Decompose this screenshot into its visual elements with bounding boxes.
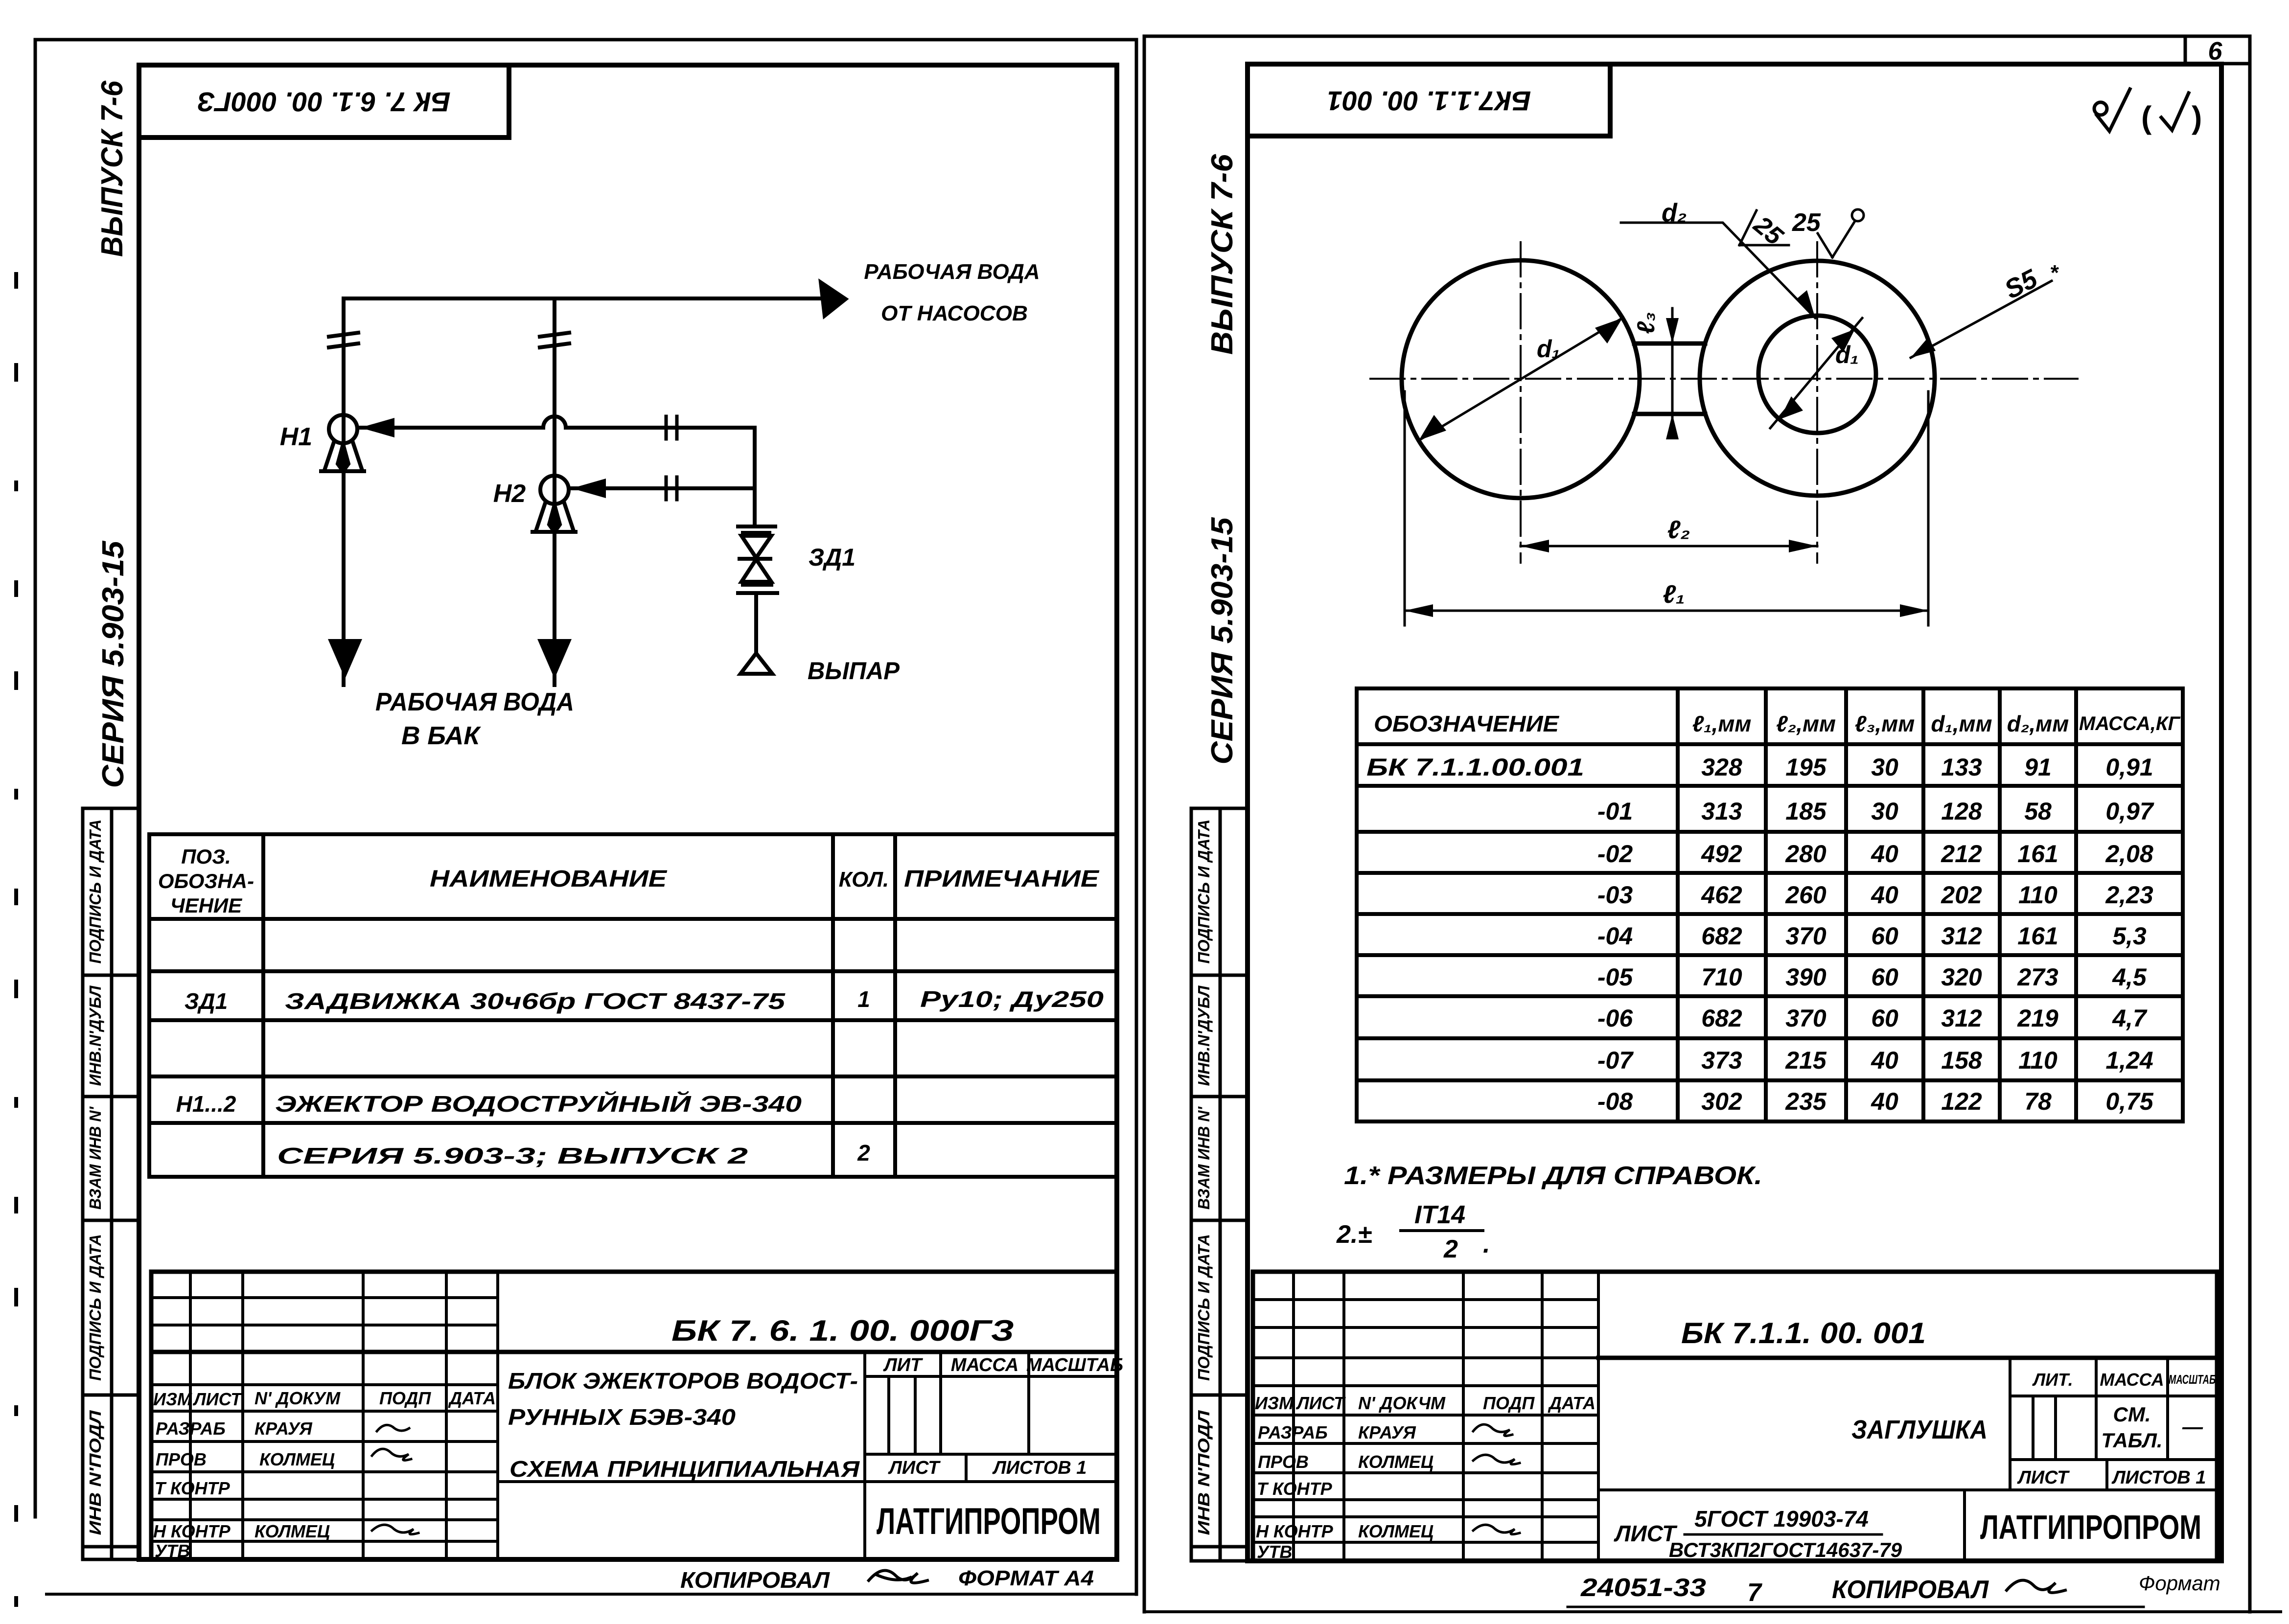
svg-text:ИНВ N'ПОДЛ: ИНВ N'ПОДЛ [1195,1410,1213,1535]
flange pair on branch 1 [329,333,358,347]
svg-text:): ) [2192,100,2202,135]
page2 outer border [1144,36,2281,1612]
svg-text:КОЛМЕЦ: КОЛМЕЦ [254,1521,330,1541]
svg-text:БЛОК ЭЖЕКТОРОВ ВОДОСТ-: БЛОК ЭЖЕКТОРОВ ВОДОСТ- [508,1368,858,1394]
svg-text:158: 158 [1941,1047,1982,1074]
page2 inner frame [1248,64,2221,1561]
svg-text:РУННЫХ БЭВ-340: РУННЫХ БЭВ-340 [508,1404,736,1430]
svg-text:ЛИСТ: ЛИСТ [888,1458,941,1478]
arrowhead into H1 [360,418,394,437]
svg-text:ЛИСТОВ 1: ЛИСТОВ 1 [2111,1467,2206,1488]
svg-text:ФОРМАТ А4: ФОРМАТ А4 [958,1566,1094,1590]
svg-text:(: ( [2141,100,2152,135]
size table header [1374,711,2181,736]
svg-text:Н КОНТР: Н КОНТР [153,1521,231,1541]
svg-text:60: 60 [1871,1005,1898,1032]
centerline vertical right [1816,242,1818,563]
lit/massa/masshtab [883,1355,1123,1478]
svg-text:МАСШТАБ: МАСШТАБ [2169,1372,2216,1387]
dim l3 (neck width) [1632,308,1679,439]
svg-text:ПОДПИСЬ И ДАТА: ПОДПИСЬ И ДАТА [1195,820,1213,964]
size table rows [1366,754,2154,1115]
svg-text:МАСШТАБ: МАСШТАБ [1026,1355,1123,1375]
svg-text:312: 312 [1941,922,1982,950]
svg-text:-02: -02 [1597,840,1633,868]
svg-text:Н1: Н1 [280,423,312,451]
stamp box (rotated doc number) [139,65,509,137]
svg-text:УТВ: УТВ [1257,1542,1292,1562]
svg-text:СЕРИЯ 5.903-3; ВЫПУСК 2: СЕРИЯ 5.903-3; ВЫПУСК 2 [277,1143,748,1168]
stamp box (rotated doc number) [1248,64,1610,136]
svg-text:ℓ₂: ℓ₂ [1667,516,1690,544]
svg-text:2: 2 [857,1140,870,1166]
svg-text:УТВ: УТВ [155,1541,190,1561]
svg-text:ОТ НАСОСОВ: ОТ НАСОСОВ [881,301,1028,325]
svg-text:ПОДПИСЬ И ДАТА: ПОДПИСЬ И ДАТА [86,820,104,964]
svg-text:60: 60 [1871,963,1898,991]
svg-text:ПОЗ.: ПОЗ. [181,845,231,868]
dim d1 right (bore diameter) [1770,318,1862,428]
svg-text:ИНВ.N'ДУБЛ: ИНВ.N'ДУБЛ [1195,985,1213,1086]
svg-text:КОЛМЕЦ: КОЛМЕЦ [1358,1452,1434,1472]
svg-text:ЭЖЕКТОР ВОДОСТРУЙНЫЙ ЭВ-340: ЭЖЕКТОР ВОДОСТРУЙНЫЙ ЭВ-340 [275,1091,802,1117]
svg-text:КОЛМЕЦ: КОЛМЕЦ [1358,1521,1434,1541]
svg-text:ПОДП: ПОДП [379,1388,431,1408]
flange pair on H2 inlet [666,477,677,500]
svg-text:ИЗМ: ИЗМ [1255,1393,1294,1413]
margin stamp boxes column [83,808,139,1559]
svg-text:40: 40 [1871,1047,1898,1074]
margin stamp box labels [86,820,104,1535]
svg-text:БК7.1.1. 00. 001: БК7.1.1. 00. 001 [1327,86,1531,116]
svg-text:370: 370 [1785,922,1827,950]
svg-text:ПРОВ: ПРОВ [1258,1452,1309,1472]
chamfer note 25 (slanted roughness mark) [1739,210,1789,251]
svg-text:0,97: 0,97 [2105,798,2154,825]
leader d2 [1621,199,1815,318]
svg-text:ВСТ3КП2ГОСТ14637-79: ВСТ3КП2ГОСТ14637-79 [1669,1538,1902,1561]
svg-text:МАССА: МАССА [951,1355,1019,1375]
valve ZD1 (gate valve) [738,526,777,593]
node label: РАБОЧАЯ ВОДА В БАК [375,688,574,750]
svg-text:КОЛМЕЦ: КОЛМЕЦ [259,1449,335,1469]
svg-text:91: 91 [2024,754,2052,781]
kopiroval / format [680,1566,1094,1593]
svg-text:25: 25 [1792,208,1821,237]
doc footer numbers [1580,1572,2220,1607]
svg-text:.: . [1483,1230,1490,1258]
svg-text:ЗАДВИЖКА 30ч6бр ГОСТ 8437-75: ЗАДВИЖКА 30ч6бр ГОСТ 8437-75 [285,988,786,1014]
svg-text:4,5: 4,5 [2112,963,2147,991]
svg-text:370: 370 [1785,1005,1827,1032]
svg-text:30: 30 [1871,798,1898,825]
svg-text:ПРОВ: ПРОВ [156,1449,207,1469]
svg-text:КОПИРОВАЛ: КОПИРОВАЛ [680,1567,830,1593]
svg-text:202: 202 [1941,881,1982,909]
svg-text:312: 312 [1941,1005,1982,1032]
svg-text:БК 7.1.1. 00. 001: БК 7.1.1. 00. 001 [1681,1317,1926,1350]
svg-text:462: 462 [1701,881,1742,909]
svg-text:-01: -01 [1597,798,1633,825]
svg-text:40: 40 [1871,881,1898,909]
svg-text:40: 40 [1871,840,1898,868]
svg-text:РАЗРАБ: РАЗРАБ [156,1418,226,1439]
svg-text:302: 302 [1701,1088,1742,1115]
margin stamp boxes column [1191,808,1248,1561]
svg-text:ЗД1: ЗД1 [185,988,228,1014]
left disc outline [1402,260,1640,498]
svg-text:Ру10; Ду250: Ру10; Ду250 [920,986,1104,1012]
svg-text:ЛАТГИПРОПРОМ: ЛАТГИПРОПРОМ [1980,1508,2201,1546]
svg-text:212: 212 [1941,840,1982,868]
svg-text:РАБОЧАЯ ВОДА: РАБОЧАЯ ВОДА [864,260,1040,284]
svg-text:110: 110 [2018,1047,2058,1074]
outlet arrow branch 1 [328,639,362,679]
outlet arrow branch 2 [537,639,572,679]
svg-text:5ГОСТ 19903-74: 5ГОСТ 19903-74 [1694,1506,1869,1532]
svg-text:280: 280 [1785,840,1827,868]
svg-text:d₁,мм: d₁,мм [1931,711,1992,736]
row ZD1 [185,986,1104,1014]
arrowhead into H2 [572,479,606,498]
svg-text:ВЗАМ ИНВ N': ВЗАМ ИНВ N' [1195,1106,1213,1210]
svg-text:320: 320 [1941,963,1982,991]
svg-text:328: 328 [1701,754,1742,781]
svg-text:492: 492 [1701,840,1742,868]
row seriya [277,1140,870,1168]
svg-text:ДАТА: ДАТА [1548,1393,1595,1413]
svg-text:СХЕМА ПРИНЦИПИАЛЬНАЯ: СХЕМА ПРИНЦИПИАЛЬНАЯ [509,1456,860,1482]
svg-text:710: 710 [1701,963,1742,991]
svg-text:4,7: 4,7 [2112,1005,2148,1032]
svg-text:78: 78 [2024,1088,2052,1115]
PAGE 1 (left sheet) [16,40,1136,1605]
wire: branch 1 vertical [342,298,346,685]
svg-text:2,23: 2,23 [2105,881,2153,909]
svg-text:161: 161 [2017,922,2058,950]
page1 inner frame [139,65,1117,1559]
svg-text:-07: -07 [1597,1047,1634,1074]
wire: valve to vent [754,593,758,653]
svg-text:ДАТА: ДАТА [448,1388,496,1408]
svg-text:БК 7. 6. 1. 00. 000ГЗ: БК 7. 6. 1. 00. 000ГЗ [671,1314,1014,1347]
svg-text:215: 215 [1785,1047,1827,1074]
svg-text:30: 30 [1871,754,1898,781]
svg-text:ПРИМЕЧАНИЕ: ПРИМЕЧАНИЕ [904,866,1100,892]
svg-text:ЛАТГИПРОПРОМ: ЛАТГИПРОПРОМ [877,1501,1101,1542]
svg-text:40: 40 [1871,1088,1898,1115]
svg-text:161: 161 [2017,840,2058,868]
wire: H1 inlet from right with crossover bump [360,416,755,428]
svg-text:110: 110 [2018,881,2058,909]
svg-text:682: 682 [1701,922,1742,950]
signatures [372,1425,418,1534]
wire: top supply pipe [344,297,827,300]
svg-text:ℓ₁: ℓ₁ [1663,580,1685,609]
signatures page2 [1473,1424,1520,1534]
right disc bore d2 [1758,316,1876,433]
svg-text:Н1...2: Н1...2 [176,1091,236,1117]
ejector H1 [321,415,364,471]
svg-text:ℓ₃: ℓ₃ [1632,312,1660,334]
parts table header [158,845,1100,917]
vent funnel (open triangle) [740,653,772,674]
svg-text:ℓ₁,мм: ℓ₁,мм [1692,711,1752,736]
svg-text:2: 2 [1443,1235,1458,1263]
svg-text:ПОДПИСЬ И ДАТА: ПОДПИСЬ И ДАТА [86,1234,104,1381]
svg-text:ℓ₂,мм: ℓ₂,мм [1776,711,1836,736]
centerline vertical left [1520,242,1522,563]
svg-text:-06: -06 [1597,1005,1633,1032]
row H1...2 [176,1091,802,1117]
svg-text:В БАК: В БАК [401,722,481,750]
svg-text:0,75: 0,75 [2105,1088,2154,1115]
svg-text:1,24: 1,24 [2105,1047,2153,1074]
svg-text:СЕРИЯ 5.903-15: СЕРИЯ 5.903-15 [96,540,130,788]
svg-text:-08: -08 [1597,1088,1633,1115]
svg-text:6: 6 [2208,37,2223,66]
dim l1 (overall) [1405,391,1928,625]
svg-text:ЧЕНИЕ: ЧЕНИЕ [170,894,243,917]
page1 outer border [16,40,1136,1605]
svg-text:5,3: 5,3 [2112,922,2147,950]
svg-text:-04: -04 [1597,922,1633,950]
svg-text:2,08: 2,08 [2105,840,2153,868]
svg-text:Т КОНТР: Т КОНТР [1257,1479,1333,1499]
right disc outline [1700,261,1935,496]
svg-text:N' ДОКЧМ: N' ДОКЧМ [1358,1393,1446,1413]
svg-text:*: * [2050,261,2059,285]
svg-text:7: 7 [1747,1578,1762,1607]
signature squiggle bottom [869,1571,927,1583]
svg-text:ПОДП: ПОДП [1483,1393,1535,1413]
svg-text:373: 373 [1701,1047,1742,1074]
svg-text:СЕРИЯ 5.903-15: СЕРИЯ 5.903-15 [1205,517,1239,765]
svg-text:КОПИРОВАЛ: КОПИРОВАЛ [1832,1576,1989,1604]
svg-text:273: 273 [2017,963,2058,991]
svg-text:—: — [2182,1415,2203,1438]
svg-text:-05: -05 [1597,963,1633,991]
svg-text:ВЫПУСК 7-6: ВЫПУСК 7-6 [1205,154,1239,355]
surface finish marks [2094,89,2189,131]
title: name [508,1368,860,1482]
svg-text:ИНВ N'ПОДЛ: ИНВ N'ПОДЛ [86,1410,104,1535]
svg-text:195: 195 [1785,754,1827,781]
svg-text:235: 235 [1785,1088,1827,1115]
svg-text:Т КОНТР: Т КОНТР [155,1478,231,1498]
svg-text:ЛИСТ: ЛИСТ [192,1389,243,1409]
lit/massa/masshtab [2032,1370,2216,1390]
svg-text:1: 1 [857,986,870,1012]
ejector H2 [532,476,576,532]
svg-text:ℓ₃,мм: ℓ₃,мм [1855,711,1915,736]
note 25 with circled roughness mark [1792,208,1864,257]
svg-text:КОЛ.: КОЛ. [839,868,889,892]
svg-text:ПОДПИСЬ И ДАТА: ПОДПИСЬ И ДАТА [1195,1234,1213,1381]
flange pair on branch 2 [540,333,569,347]
svg-text:313: 313 [1701,798,1742,825]
svg-text:КРАУЯ: КРАУЯ [254,1418,313,1439]
svg-text:IT14: IT14 [1414,1201,1465,1229]
notes [1336,1162,1762,1263]
svg-text:d₁: d₁ [1835,341,1859,368]
node label: РАБОЧАЯ ВОДА ОТ НАСОСОВ [864,260,1040,325]
svg-text:ВЫПУСК 7-6: ВЫПУСК 7-6 [95,81,129,257]
arrow to pumps (flow arrowhead) [819,280,848,318]
svg-text:ЛИСТ: ЛИСТ [2017,1467,2070,1488]
svg-text:ЗАГЛУШКА: ЗАГЛУШКА [1851,1415,1988,1444]
svg-text:ТАБЛ.: ТАБЛ. [2101,1429,2162,1452]
svg-text:Н2: Н2 [493,480,526,508]
svg-text:128: 128 [1941,798,1982,825]
wire: branch 2 vertical [553,298,556,685]
svg-text:-03: -03 [1597,881,1633,909]
svg-text:d₁: d₁ [1537,335,1560,363]
sheet number box "6" [2185,36,2250,66]
svg-text:24051-33: 24051-33 [1580,1574,1706,1602]
svg-text:КРАУЯ: КРАУЯ [1358,1422,1416,1442]
svg-text:0,91: 0,91 [2105,754,2153,781]
svg-text:НАИМЕНОВАНИЕ: НАИМЕНОВАНИЕ [430,866,668,892]
svg-text:МАССА: МАССА [2100,1370,2164,1390]
svg-text:Формат: Формат [2139,1572,2220,1595]
svg-text:ЛИСТ: ЛИСТ [1614,1521,1678,1546]
svg-text:S5: S5 [2000,264,2042,305]
flange pair on H1 inlet [666,416,677,439]
svg-text:ЛИТ: ЛИТ [883,1355,923,1375]
svg-text:ИЗМ: ИЗМ [153,1389,192,1409]
title block page2 left grid labels [1255,1393,1595,1562]
neck bottom edge [1634,412,1705,416]
svg-text:ОБОЗНА-: ОБОЗНА- [158,869,254,892]
svg-text:185: 185 [1785,798,1827,825]
svg-text:БК 7. 6.1. 00. 000ГЗ: БК 7. 6.1. 00. 000ГЗ [197,87,450,117]
dim l2 (center distance) [1521,516,1817,552]
svg-text:d₂: d₂ [1662,199,1687,227]
svg-text:60: 60 [1871,922,1898,950]
svg-text:390: 390 [1785,963,1827,991]
PAGE 2 (right sheet) [1144,36,2281,1612]
svg-text:Н КОНТР: Н КОНТР [1256,1521,1334,1541]
svg-text:РАЗРАБ: РАЗРАБ [1258,1422,1328,1442]
material cell [1614,1506,1902,1561]
svg-text:260: 260 [1785,881,1827,909]
centerline horizontal [1370,378,2078,380]
svg-text:ИНВ.N'ДУБЛ: ИНВ.N'ДУБЛ [86,985,104,1086]
svg-text:ЛИСТОВ 1: ЛИСТОВ 1 [992,1458,1087,1478]
dim d1 left (diameter line) [1419,318,1622,440]
svg-text:БК 7.1.1.00.001: БК 7.1.1.00.001 [1366,754,1584,781]
svg-text:N' ДОКУМ: N' ДОКУМ [254,1388,341,1408]
margin stamp box labels [1195,820,1213,1535]
svg-text:ВЗАМ ИНВ N': ВЗАМ ИНВ N' [86,1106,104,1210]
svg-text:2.±: 2.± [1336,1220,1372,1249]
svg-text:ЛИСТ: ЛИСТ [1295,1393,1346,1413]
svg-text:ЗД1: ЗД1 [809,544,855,571]
svg-text:1.* РАЗМЕРЫ ДЛЯ СПРАВОК.: 1.* РАЗМЕРЫ ДЛЯ СПРАВОК. [1344,1162,1762,1190]
wire: H2 inlet from right [571,486,755,490]
svg-text:219: 219 [2017,1005,2058,1032]
title block left grid labels [153,1388,496,1561]
svg-text:ВЫПАР: ВЫПАР [808,657,900,685]
svg-text:МАССА,КГ: МАССА,КГ [2079,713,2181,734]
svg-text:ОБОЗНАЧЕНИЕ: ОБОЗНАЧЕНИЕ [1374,711,1559,736]
svg-text:d₂,мм: d₂,мм [2007,711,2069,736]
svg-text:122: 122 [1941,1088,1982,1115]
wire: riser to valve [753,428,757,526]
svg-text:СМ.: СМ. [2113,1403,2151,1426]
svg-text:РАБОЧАЯ ВОДА: РАБОЧАЯ ВОДА [375,688,574,716]
leader S5 (thickness) [1911,261,2059,358]
svg-text:133: 133 [1941,754,1982,781]
neck top edge [1634,342,1705,346]
svg-text:ЛИТ.: ЛИТ. [2032,1370,2073,1390]
svg-text:682: 682 [1701,1005,1742,1032]
svg-text:58: 58 [2024,798,2052,825]
